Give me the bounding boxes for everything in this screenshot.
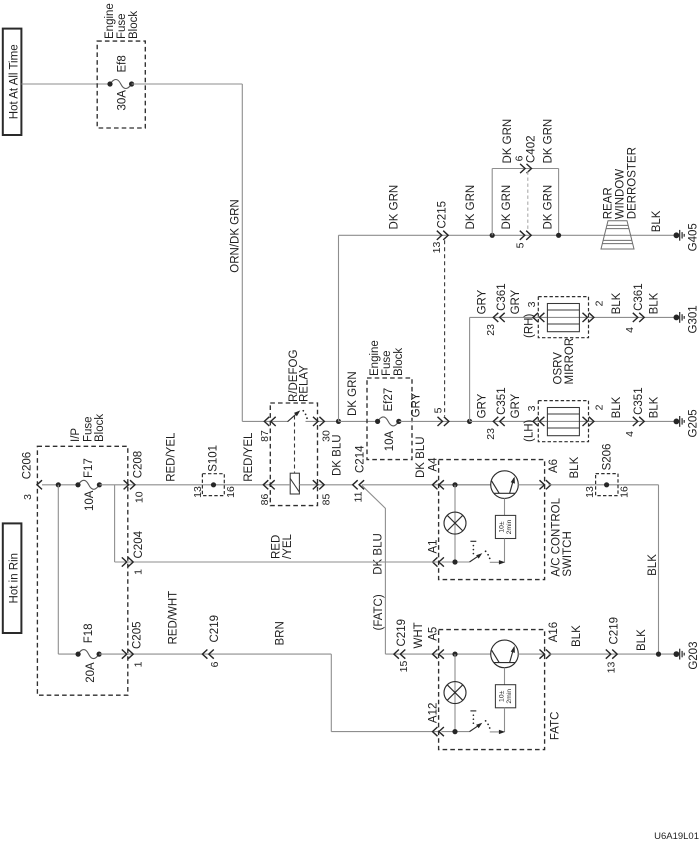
wire junction to Ef27 — [339, 420, 378, 422]
svg-text:20A: 20A — [85, 662, 97, 683]
relay coil — [290, 473, 299, 494]
relay switch arm — [288, 412, 299, 422]
svg-text:DK GRN: DK GRN — [389, 185, 401, 230]
wire A16 BLK to ground — [549, 653, 677, 655]
ground G205 — [674, 419, 680, 425]
transistor base stem — [504, 498, 506, 515]
svg-text:DK BLU: DK BLU — [373, 533, 385, 575]
svg-text:2min: 2min — [506, 689, 513, 704]
svg-text:/YEL: /YEL — [282, 533, 294, 559]
svg-text:OSRV: OSRV — [552, 352, 564, 385]
wire transistor to right pin — [518, 484, 545, 486]
transistor — [491, 471, 519, 499]
wire C206 to F17 — [42, 484, 78, 486]
svg-text:Engine: Engine — [369, 340, 381, 376]
rear window defroster element — [601, 221, 634, 249]
wire C402 loop right riser — [558, 169, 560, 236]
power box Hot At All Time — [3, 29, 22, 135]
svg-text:RED: RED — [271, 535, 283, 559]
wire inside to transistor — [441, 653, 490, 655]
svg-text:BLK: BLK — [649, 396, 661, 418]
svg-text:A4: A4 — [428, 457, 440, 472]
svg-text:F18: F18 — [83, 623, 95, 643]
wire pin to switch pivot — [441, 561, 469, 563]
svg-text:A1: A1 — [428, 539, 440, 553]
wire Ef27 to connector 5 — [399, 420, 470, 422]
svg-text:A16: A16 — [548, 622, 560, 642]
relay pin 85 connector — [313, 480, 318, 489]
svg-text:S206: S206 — [602, 444, 614, 471]
svg-text:U6A19L01: U6A19L01 — [654, 831, 699, 841]
wire F17 to C208 and S101 and relay 86 — [99, 484, 290, 486]
wire transistor to right pin — [518, 653, 545, 655]
svg-text:C204: C204 — [133, 530, 145, 558]
svg-text:6: 6 — [209, 661, 221, 667]
svg-text:SWITCH: SWITCH — [562, 531, 574, 576]
svg-text:BLK: BLK — [611, 292, 623, 314]
svg-text:RELAY: RELAY — [299, 365, 311, 402]
svg-text:BLK: BLK — [571, 625, 583, 647]
switch momentary tick — [470, 540, 476, 542]
wire FATC feed to C219 15 — [385, 653, 438, 655]
svg-text:G205: G205 — [688, 409, 700, 437]
node C402 right junction — [556, 233, 561, 238]
svg-text:DK GRN: DK GRN — [347, 371, 359, 416]
svg-text:DK BLU: DK BLU — [415, 436, 427, 478]
engine fuse block Ef27 dashed box — [367, 378, 412, 460]
svg-text:DK GRN: DK GRN — [501, 185, 513, 230]
relay pin 86 connector — [263, 480, 268, 489]
svg-text:3: 3 — [526, 301, 538, 307]
wire inside to transistor — [441, 484, 490, 486]
svg-text:A5: A5 — [428, 627, 440, 641]
mirror pin 3 — [533, 313, 538, 322]
node C402 left junction — [490, 233, 495, 238]
pin A5 connector — [433, 650, 438, 659]
connector C214 pin 11 — [353, 480, 358, 489]
pin A6 connector — [540, 480, 545, 489]
svg-text:23: 23 — [485, 324, 497, 336]
relay switch dotted throw — [302, 410, 304, 412]
svg-text:10A: 10A — [384, 430, 396, 451]
svg-text:C219: C219 — [609, 617, 621, 645]
svg-text:RED/WHT: RED/WHT — [168, 591, 180, 645]
svg-text:5: 5 — [514, 242, 526, 248]
pin A16 connector — [540, 650, 545, 659]
node lamp junction top — [452, 652, 457, 657]
node GRY junction — [467, 419, 472, 424]
fuse Ef8 30A — [110, 80, 132, 89]
svg-text:15: 15 — [398, 661, 410, 673]
wire relay pin 30 — [306, 420, 339, 422]
wire GRY to C361 — [470, 316, 677, 318]
wire C402 loop top — [492, 168, 558, 170]
connector C351 pin 23 — [493, 417, 498, 426]
power box Hot in Rin — [3, 523, 22, 633]
svg-text:BLK: BLK — [611, 396, 623, 418]
svg-text:C208: C208 — [133, 451, 145, 479]
svg-text:BLK: BLK — [569, 456, 581, 478]
svg-text:10±: 10± — [498, 690, 505, 702]
svg-text:30A: 30A — [117, 90, 129, 111]
svg-text:4: 4 — [624, 327, 636, 333]
svg-text:WHT: WHT — [413, 622, 425, 648]
svg-text:C351: C351 — [633, 387, 645, 415]
pin A12 connector — [433, 727, 438, 736]
connector C215 dashed link — [444, 240, 446, 416]
svg-text:Block: Block — [94, 414, 106, 442]
svg-text:2min: 2min — [506, 519, 513, 534]
svg-text:Block: Block — [128, 11, 140, 39]
connector C215 pin 13 — [437, 231, 442, 240]
svg-text:WINDOW: WINDOW — [615, 169, 627, 220]
switch dotted throw — [485, 720, 487, 722]
svg-text:RED/YEL: RED/YEL — [166, 432, 178, 482]
wire GRY to C351 — [470, 420, 677, 422]
svg-text:13: 13 — [431, 242, 443, 254]
switch output wire to timer stem — [490, 731, 501, 733]
wire C214 to A4 — [362, 484, 491, 486]
svg-text:13: 13 — [584, 486, 596, 498]
splice S101 — [202, 474, 224, 496]
connector C361 pin 4 — [633, 313, 638, 322]
svg-text:A6: A6 — [548, 459, 560, 473]
svg-text:DK BLU: DK BLU — [332, 434, 344, 476]
svg-text:2: 2 — [593, 300, 605, 306]
svg-text:DK GRN: DK GRN — [543, 185, 555, 230]
lamp wire — [454, 485, 456, 562]
FATC box — [439, 630, 545, 750]
svg-text:A/C CONTROL: A/C CONTROL — [551, 497, 563, 576]
svg-text:DERROSTER: DERROSTER — [627, 147, 639, 219]
connector C206 pin 3 — [37, 480, 42, 489]
svg-text:C361: C361 — [633, 283, 645, 311]
lamp wire — [454, 654, 456, 732]
svg-text:G203: G203 — [688, 642, 700, 670]
svg-text:C205: C205 — [132, 622, 144, 650]
fuse F17 10A — [78, 480, 99, 489]
fuse Ef27 10A — [378, 417, 399, 426]
svg-text:F17: F17 — [83, 458, 95, 478]
svg-text:C219: C219 — [396, 619, 408, 647]
svg-text:Ef8: Ef8 — [117, 55, 129, 72]
transistor base stem — [504, 668, 506, 685]
i/p fuse block dashed box — [37, 446, 127, 695]
svg-text:GRY: GRY — [477, 393, 489, 418]
ground G203 — [674, 651, 680, 657]
wire A6 BLK to S206 — [549, 484, 659, 486]
svg-text:DK GRN: DK GRN — [465, 185, 477, 230]
wire coil to pin 85 — [299, 484, 352, 486]
svg-text:I/P: I/P — [70, 428, 82, 442]
wire riser to top DK GRN wire — [338, 235, 340, 421]
switch output wire to timer stem — [490, 561, 501, 563]
svg-text:BLK: BLK — [649, 292, 661, 314]
connector C215 pin 5 — [438, 417, 443, 426]
svg-text:(FATC): (FATC) — [373, 594, 385, 630]
mirror pin 3 — [533, 417, 538, 426]
r/defog relay box — [270, 403, 317, 506]
mirror pin 2 — [583, 417, 588, 426]
pin A1 connector — [433, 557, 438, 566]
svg-text:16: 16 — [618, 486, 630, 498]
svg-text:DK GRN: DK GRN — [543, 119, 555, 164]
svg-text:C402: C402 — [526, 136, 538, 164]
svg-text:GRY: GRY — [510, 393, 522, 418]
svg-text:C215: C215 — [437, 201, 449, 229]
node lamp junction bottom — [452, 729, 457, 734]
svg-text:GRY: GRY — [477, 289, 489, 314]
wire branch diagonal to FATC — [362, 485, 386, 654]
svg-text:1: 1 — [132, 661, 144, 667]
wire F18 feed riser — [57, 485, 59, 654]
node lamp junction top — [452, 482, 457, 487]
A/C CONTROL box — [439, 460, 545, 580]
svg-text:G301: G301 — [688, 305, 700, 333]
wire C402 loop left riser — [491, 169, 493, 236]
svg-text:30: 30 — [320, 430, 332, 442]
svg-text:C219: C219 — [209, 615, 221, 643]
node relay output junction — [336, 419, 341, 424]
svg-text:23: 23 — [485, 428, 497, 440]
svg-text:85: 85 — [320, 494, 332, 506]
svg-text:G405: G405 — [688, 223, 700, 251]
relay mechanical link dashed — [294, 416, 296, 473]
timer stem to switch — [504, 708, 506, 732]
fuse F18 20A — [78, 650, 99, 659]
svg-text:3: 3 — [526, 405, 538, 411]
wire pin to switch pivot — [441, 731, 469, 733]
timer 10+-2min — [495, 685, 515, 708]
wire hot-at-all-time to Ef8 — [21, 83, 110, 85]
connector C204 pin 1 — [122, 557, 127, 566]
svg-text:C206: C206 — [22, 452, 34, 480]
splice S206 — [596, 474, 618, 496]
indicator lamp — [444, 682, 466, 704]
ground G301 — [674, 315, 680, 321]
svg-text:ORN/DK GRN: ORN/DK GRN — [230, 199, 242, 272]
svg-text:GRY: GRY — [411, 392, 423, 417]
wire riser to RH mirror row — [469, 317, 471, 421]
switch dotted throw — [485, 550, 487, 552]
svg-text:C361: C361 — [496, 283, 508, 311]
connector C205 pin 1 — [122, 650, 127, 659]
node BLK junction — [656, 652, 661, 657]
svg-text:10±: 10± — [498, 521, 505, 533]
svg-text:16: 16 — [225, 486, 237, 498]
pin A4 connector — [433, 480, 438, 489]
svg-text:13: 13 — [192, 486, 204, 498]
svg-text:C214: C214 — [355, 445, 367, 473]
svg-text:10: 10 — [133, 491, 145, 503]
svg-text:86: 86 — [259, 494, 271, 506]
wire ORN/DK GRN vertical — [241, 84, 243, 421]
svg-text:Fuse: Fuse — [381, 350, 393, 376]
wire C204 RED/YEL to A1 — [114, 485, 116, 562]
switch momentary tick — [470, 710, 476, 712]
svg-text:BLK: BLK — [636, 629, 648, 651]
svg-text:RED/YEL: RED/YEL — [243, 432, 255, 482]
connector C402 pin 5 — [520, 231, 525, 240]
svg-text:BLK: BLK — [651, 210, 663, 232]
svg-text:S101: S101 — [207, 445, 219, 472]
node lamp junction bottom — [452, 559, 457, 564]
wire Ef8 to corner — [132, 83, 243, 85]
svg-text:2: 2 — [593, 404, 605, 410]
connector C219 pin 13 — [606, 650, 611, 659]
timer stem to switch — [504, 539, 506, 563]
svg-text:87: 87 — [259, 430, 271, 442]
svg-text:GRY: GRY — [510, 289, 522, 314]
svg-text:Ef27: Ef27 — [383, 388, 395, 412]
connector C219 pin 6 — [202, 650, 207, 659]
svg-text:Hot At All Time: Hot At All Time — [8, 44, 20, 119]
wire BRN corner to A12 — [330, 654, 332, 732]
mirror heater element RH — [538, 297, 588, 338]
svg-text:10A: 10A — [84, 490, 96, 511]
switch arm — [470, 724, 481, 731]
svg-text:MIRROR: MIRROR — [564, 338, 576, 385]
svg-text:3: 3 — [22, 494, 34, 500]
relay pin 30 connector — [313, 417, 318, 426]
svg-text:1: 1 — [132, 569, 144, 575]
timer 10+-2min — [495, 515, 515, 538]
svg-text:Fuse: Fuse — [116, 13, 128, 39]
svg-text:6: 6 — [513, 155, 525, 161]
wire F18 to C205 to C219 — [99, 653, 331, 655]
svg-text:Block: Block — [393, 348, 405, 376]
switch arm — [470, 555, 481, 562]
wire BLK riser to G203 row — [658, 485, 660, 654]
ground G405 — [674, 232, 680, 238]
transistor — [491, 640, 519, 668]
svg-text:A12: A12 — [428, 703, 440, 723]
svg-text:BRN: BRN — [275, 621, 287, 645]
connector C402 dashed link — [527, 172, 529, 232]
wire top DK GRN run — [339, 234, 677, 236]
svg-text:Hot in Rin: Hot in Rin — [8, 553, 20, 604]
svg-text:FATC: FATC — [549, 712, 561, 741]
connector C208 pin 10 — [124, 480, 129, 489]
connector C402 pin 6 — [520, 164, 525, 173]
mirror heater element LH — [538, 401, 588, 442]
svg-text:4: 4 — [624, 431, 636, 437]
svg-text:11: 11 — [352, 491, 364, 502]
svg-text:Engine: Engine — [104, 3, 116, 39]
svg-text:BLK: BLK — [647, 554, 659, 576]
svg-text:DK GRN: DK GRN — [502, 119, 514, 164]
svg-text:C351: C351 — [496, 387, 508, 415]
svg-text:13: 13 — [605, 662, 617, 674]
connector C351 pin 4 — [633, 417, 638, 426]
mirror pin 2 — [583, 313, 588, 322]
indicator lamp — [444, 512, 466, 534]
svg-text:REAR: REAR — [603, 187, 615, 219]
relay pin 87 connector — [264, 417, 269, 426]
wire into relay pin 87 — [242, 420, 287, 422]
svg-text:5: 5 — [432, 407, 444, 413]
connector C219 pin 15 — [394, 650, 399, 659]
engine fuse block Ef8 dashed box — [97, 41, 145, 128]
node F18 branch junction — [56, 482, 61, 487]
connector C361 pin 23 — [493, 313, 498, 322]
svg-text:Fuse: Fuse — [83, 416, 95, 442]
